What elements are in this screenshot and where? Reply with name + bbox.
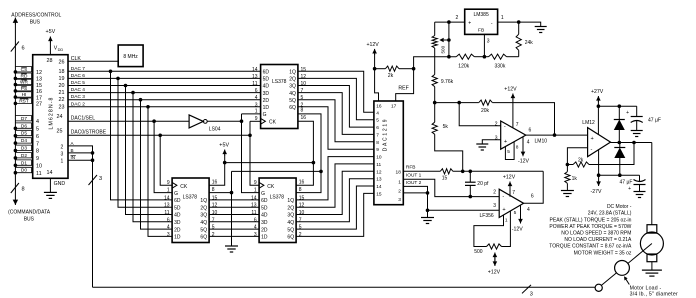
DAC0/STROBE line pin 25 [68,134,250,136]
svg-text:7: 7 [376,132,379,138]
svg-text:+: + [504,139,507,145]
svg-text:DAC 6: DAC 6 [71,73,85,79]
svg-text:12: 12 [212,203,218,209]
svg-text:15: 15 [376,191,382,197]
svg-text:13: 13 [164,203,170,209]
svg-text:POWER AT PEAK TORQUE = 570W: POWER AT PEAK TORQUE = 570W [549,224,631,230]
svg-text:LM10: LM10 [535,138,548,144]
resistor 2k REF [373,67,377,71]
IOUT1 wire [403,179,499,196]
svg-text:RST: RST [19,98,29,104]
svg-text:DAC1219: DAC1219 [383,118,389,152]
svg-text:20: 20 [59,83,65,89]
svg-text:10: 10 [301,81,307,87]
LM12 -27V supply [598,150,600,179]
svg-text:18: 18 [59,69,65,75]
svg-text:7: 7 [212,217,215,223]
svg-text:2D: 2D [263,98,270,104]
svg-text:13: 13 [252,74,258,80]
svg-text:18: 18 [396,169,402,175]
svg-text:NO LOAD SPEED = 3870 RPM: NO LOAD SPEED = 3870 RPM [561,231,631,237]
svg-text:24V, 23.8A (STALL): 24V, 23.8A (STALL) [588,211,632,217]
encoder bus bottom run [93,286,596,288]
resistor 9.76k [434,57,436,75]
svg-text:+5V: +5V [219,143,229,149]
svg-text:47 µF: 47 µF [620,179,633,185]
svg-text:DAC 3: DAC 3 [71,94,85,100]
svg-text:27: 27 [36,102,42,108]
svg-text:6: 6 [254,217,257,223]
encoder bus slash 3 [89,175,98,185]
svg-text:14: 14 [251,195,257,201]
op-amp U6 LM10 [501,121,526,149]
svg-text:11: 11 [36,171,42,177]
svg-text:1D: 1D [174,235,181,241]
DAC5 line from LM628 pin 20 with tap to lower latch [68,85,261,87]
DAC1/SEL line pin 24 [68,120,189,122]
svg-text:10: 10 [299,210,305,216]
motor supply wire [651,143,653,225]
svg-text:LS378: LS378 [183,194,198,200]
svg-text:3D: 3D [263,91,270,97]
svg-text:2: 2 [456,15,459,21]
svg-text:5Q: 5Q [287,227,294,233]
svg-text:2k: 2k [388,73,394,79]
svg-text:5k: 5k [443,124,449,130]
top latch pin 16 +5V wire [296,121,313,185]
svg-text:DAC 2: DAC 2 [71,101,85,107]
encoder disc [615,261,630,276]
svg-text:3: 3 [255,102,258,108]
svg-text:22: 22 [59,97,65,103]
svg-text:(COMMAND/DATA: (COMMAND/DATA [8,210,51,216]
svg-text:HI: HI [22,92,27,98]
svg-text:5D: 5D [263,77,270,83]
svg-text:G: G [263,112,267,118]
LM10 -12V supply [522,137,524,150]
svg-text:25: 25 [57,128,63,134]
op-amp U7 LM12 [588,128,611,157]
svg-text:5: 5 [507,149,510,155]
svg-text:G: G [261,191,265,197]
svg-text:10: 10 [376,155,382,161]
svg-text:5Q: 5Q [200,227,207,233]
svg-text:FB: FB [478,28,484,34]
bus width slash 6 [11,42,19,52]
svg-text:23: 23 [59,104,65,110]
resistor 20k feedback [435,102,460,104]
svg-text:8: 8 [301,107,304,113]
LM10 balance pins 5 8 [505,142,514,160]
svg-text:+: + [468,21,471,27]
svg-text:PS: PS [21,86,27,92]
LM385 pin 3 FB wire [483,34,485,56]
svg-text:-: - [504,124,506,130]
svg-text:-: - [591,147,593,153]
svg-text:14: 14 [252,67,258,73]
svg-text:D2: D2 [21,153,27,159]
svg-text:3: 3 [99,176,102,182]
svg-text:24: 24 [57,114,63,120]
svg-text:Motor Load -: Motor Load - [630,285,662,291]
svg-text:-12V: -12V [512,227,523,233]
LM628 U1 body [33,55,68,179]
svg-text:DAC 7: DAC 7 [71,66,85,72]
lower latch LS378 U3 body and pins [172,178,209,243]
svg-text:6: 6 [255,88,258,94]
svg-text:2Q: 2Q [287,205,294,211]
LM10 output wire [526,134,588,136]
svg-text:4: 4 [254,225,257,231]
svg-text:LS04: LS04 [209,126,221,132]
svg-text:NO LOAD CURRENT = 0.21A: NO LOAD CURRENT = 0.21A [564,237,632,243]
svg-text:16: 16 [376,103,382,109]
LM10 inverting input wire [459,103,501,126]
resistor 1k [565,172,570,184]
svg-text:12: 12 [36,70,42,76]
reference row 120k/330k [435,56,457,58]
svg-text:LM385: LM385 [473,12,489,18]
svg-text:9: 9 [376,147,379,153]
DAC3 line from LM628 pin 22 with tap to lower latch [68,99,261,101]
svg-text:15: 15 [442,176,448,182]
svg-text:D0: D0 [21,168,27,174]
svg-text:CK: CK [267,184,275,190]
resistor 2k feedback [573,162,589,167]
RFB wire and 15 ohm resistor [403,170,440,172]
svg-text:16: 16 [299,180,305,186]
svg-text:1Q: 1Q [287,198,294,204]
svg-text:14: 14 [164,195,170,201]
svg-text:1: 1 [505,218,508,224]
svg-text:+12V: +12V [503,174,516,180]
svg-text:7: 7 [516,122,519,128]
DAC pin 17 REF wire [396,69,414,101]
svg-text:4D: 4D [263,84,270,90]
svg-text:8 MHz: 8 MHz [123,54,138,60]
svg-text:6Q: 6Q [200,235,207,241]
svg-text:5: 5 [212,225,215,231]
svg-text:D5: D5 [21,131,27,137]
wire top latch 5Q to DAC1219 pin 8 [298,100,374,142]
svg-text:4: 4 [167,225,170,231]
encoder feedback A B IN pins [68,146,93,287]
svg-text:DD: DD [58,47,64,52]
svg-text:DAC 5: DAC 5 [71,80,85,86]
svg-text:16: 16 [301,115,307,121]
top latch pin 8 ground wire [296,114,321,193]
svg-text:6: 6 [167,217,170,223]
svg-text:5: 5 [36,127,39,133]
svg-text:4Q: 4Q [287,220,294,226]
svg-text:4: 4 [255,95,258,101]
svg-text:-: - [502,194,504,200]
svg-text:+12V: +12V [367,42,380,48]
svg-text:4Q: 4Q [200,220,207,226]
top latch LS378 U2 body and pins [261,65,298,129]
svg-text:13: 13 [376,177,382,183]
svg-text:2Q: 2Q [289,77,296,83]
svg-text:9.76k: 9.76k [441,79,454,85]
svg-text:15: 15 [212,195,218,201]
svg-text:120k: 120k [458,64,469,70]
svg-text:6D: 6D [261,198,268,204]
svg-text:CK: CK [269,120,277,126]
svg-text:RFB: RFB [406,165,416,171]
svg-text:17: 17 [36,95,42,101]
svg-text:DAC1/SEL: DAC1/SEL [71,115,95,121]
svg-text:12: 12 [299,203,305,209]
svg-text:RD: RD [21,73,28,79]
svg-text:6: 6 [529,128,532,134]
svg-text:7: 7 [299,217,302,223]
svg-text:2: 2 [493,189,496,195]
DAC6 line from LM628 pin 19 with tap to lower latch [68,77,261,79]
svg-text:G: G [174,191,178,197]
svg-text:REF: REF [398,85,408,91]
svg-text:1: 1 [255,109,258,115]
svg-text:3Q: 3Q [289,84,296,90]
LM628 ground pin 14 [49,178,51,192]
svg-text:+27V: +27V [591,89,604,95]
svg-text:2: 2 [61,144,64,150]
svg-text:3: 3 [495,136,498,142]
wire lower latch 5Q to DAC1219 pin 14 [296,186,374,229]
svg-text:BUS: BUS [30,19,41,25]
svg-text:4D: 4D [174,213,181,219]
svg-text:5D: 5D [261,205,268,211]
wire lower latch 1Q to DAC1219 pin 10 [296,157,374,200]
8 MHz oscillator [118,45,143,67]
wire top latch 4Q to DAC1219 pin 7 [298,93,374,135]
wire lower latch 2Q to DAC1219 pin 11 [296,164,374,207]
svg-text:19: 19 [59,76,65,82]
svg-text:ADDRESS/CONTROL: ADDRESS/CONTROL [11,12,61,18]
svg-text:4D: 4D [261,213,268,219]
potentiometer 500 offset [434,22,436,35]
svg-text:2: 2 [299,232,302,238]
CLK wire [68,60,118,62]
svg-text:9: 9 [255,116,258,122]
svg-text:LM12: LM12 [582,120,595,126]
svg-text:21: 21 [59,90,65,96]
inverter LS04 [189,115,203,128]
svg-text:2k: 2k [578,158,584,164]
svg-text:6Q: 6Q [287,235,294,241]
LF356 output feedback loop [524,171,544,203]
svg-text:3D: 3D [261,220,268,226]
svg-text:6: 6 [36,134,39,140]
svg-text:13: 13 [251,203,257,209]
svg-text:5Q: 5Q [289,98,296,104]
svg-text:20 pf: 20 pf [477,181,489,187]
svg-text:D7: D7 [21,116,27,122]
DAC pin 16 wire [375,69,379,101]
svg-text:1: 1 [501,15,504,21]
svg-text:2D: 2D [261,227,268,233]
svg-text:7: 7 [512,190,515,196]
svg-text:15: 15 [301,67,307,73]
DAC pin 3 ground wire [403,192,427,194]
svg-text:CK: CK [180,184,188,190]
svg-text:2: 2 [398,189,401,195]
svg-text:14: 14 [376,184,382,190]
svg-text:26: 26 [59,60,65,66]
resistor 5k [432,122,437,134]
svg-text:47 µF: 47 µF [648,118,661,124]
svg-text:D4: D4 [21,138,27,144]
LM385 pin 1 wire to ground [498,22,541,26]
svg-text:24k: 24k [525,40,534,46]
svg-text:5: 5 [514,210,517,216]
bus connector circle [595,284,602,291]
svg-text:6: 6 [531,194,534,200]
svg-text:8: 8 [36,149,39,155]
svg-text:B: B [71,148,74,153]
svg-text:16: 16 [36,89,42,95]
svg-text:IOUT 2: IOUT 2 [406,180,422,186]
bottom bus slash 3 [522,285,531,294]
svg-text:14: 14 [47,170,53,176]
LS04 output net to latch enables [207,120,241,122]
svg-text:8: 8 [516,144,519,150]
control signal tags CS RD WR PS HI RST [14,70,18,74]
svg-text:9: 9 [36,156,39,162]
svg-text:PEAK (STALL) TORQUE = 205 oz-i: PEAK (STALL) TORQUE = 205 oz-in [550,217,632,223]
svg-text:500: 500 [474,249,483,255]
svg-text:9: 9 [254,180,257,186]
svg-text:D3: D3 [21,146,27,152]
REF row to LM385 network [414,57,435,69]
svg-text:3: 3 [493,203,496,209]
svg-text:4Q: 4Q [289,91,296,97]
svg-text:8: 8 [22,187,25,193]
svg-text:3Q: 3Q [287,213,294,219]
svg-text:12: 12 [376,169,382,175]
motor load callout arrow [625,277,630,284]
LM385 D1 body [465,9,498,34]
svg-text:LF356: LF356 [480,213,494,219]
svg-text:4: 4 [527,207,530,213]
-27V rail [599,174,640,176]
capacitor 47uF positive rail [636,106,638,116]
+27V rail [598,105,636,107]
svg-text:WR: WR [20,80,29,86]
DC motor M1 [647,225,657,233]
svg-text:9: 9 [167,180,170,186]
svg-text:11: 11 [251,210,256,216]
svg-text:3: 3 [61,151,64,157]
svg-text:1Q: 1Q [289,70,296,76]
svg-text:10: 10 [36,164,42,170]
svg-text:3: 3 [167,232,170,238]
svg-text:DAC 4: DAC 4 [71,87,85,93]
svg-text:+: + [591,136,594,142]
svg-text:8: 8 [299,187,302,193]
svg-text:6D: 6D [174,198,181,204]
svg-text:+: + [502,207,505,213]
svg-text:GND: GND [54,181,66,187]
svg-text:+: + [628,186,631,192]
LF356 offset pot 500 [474,215,504,247]
DAC U5 DAC1219 body and pins [374,101,403,205]
svg-text:+12V: +12V [504,87,517,93]
svg-text:+5V: +5V [46,29,56,35]
LM12 inverting wire [567,148,587,165]
svg-text:3: 3 [530,291,533,297]
svg-text:17: 17 [391,103,397,109]
svg-text:1: 1 [254,187,257,193]
svg-text:BUS: BUS [24,217,35,223]
motor ground [651,262,653,270]
svg-text:5D: 5D [174,205,181,211]
svg-text:8: 8 [376,140,379,146]
svg-text:1: 1 [167,187,170,193]
svg-text:+12V: +12V [488,269,501,275]
svg-text:3: 3 [398,197,401,203]
svg-text:11: 11 [164,210,169,216]
svg-text:DAC0/STROBE: DAC0/STROBE [71,130,107,136]
svg-text:MOTOR WEIGHT = 35 oz: MOTOR WEIGHT = 35 oz [574,250,632,256]
capacitor 20pF [469,171,471,182]
svg-text:2Q: 2Q [200,205,207,211]
bus line (address/control + command/data) [14,23,16,198]
svg-text:CS: CS [21,67,28,73]
svg-text:3D: 3D [174,220,181,226]
svg-text:-27V: -27V [591,189,602,195]
svg-text:1D: 1D [263,105,270,111]
LM12 output row [611,142,652,144]
wire top latch 6Q to DAC1219 pin 9 [298,107,374,149]
svg-text:4: 4 [36,119,39,125]
svg-text:5: 5 [376,118,379,124]
svg-text:3: 3 [254,232,257,238]
svg-text:10: 10 [212,210,218,216]
motor shaft to encoder [601,244,652,286]
svg-text:12: 12 [301,74,307,80]
wire top latch 3Q to DAC1219 pin 6 [298,86,374,128]
capacitor 47uF negative rail [639,175,641,181]
wire top latch 1Q to DAC1219 pin 4 [298,71,374,112]
svg-text:11: 11 [376,162,381,168]
clamp diode D2 [618,106,620,119]
svg-text:D1: D1 [21,160,27,166]
svg-text:TORQUE CONSTANT = 8.67 oz-in/A: TORQUE CONSTANT = 8.67 oz-in/A [549,244,632,250]
lower latch LS378 U4 body and pins [259,178,296,243]
svg-text:4: 4 [527,139,530,145]
wire top latch 2Q to DAC1219 pin 5 [298,78,374,119]
svg-text:2: 2 [495,121,498,127]
svg-text:IOUT 1: IOUT 1 [406,173,422,179]
svg-text:500: 500 [441,45,446,53]
svg-text:6: 6 [376,125,379,131]
svg-text:330k: 330k [495,64,506,70]
op-amp U8 LF356 [499,189,523,217]
svg-text:28: 28 [47,58,53,64]
svg-text:6Q: 6Q [289,105,296,111]
LM10 non-inverting ground [482,140,500,144]
svg-text:16: 16 [212,180,218,186]
svg-text:5: 5 [299,225,302,231]
svg-text:5: 5 [301,95,304,101]
svg-text:1D: 1D [261,235,268,241]
clamp diode D3 [619,143,621,148]
wire lower latch 3Q to DAC1219 pin 12 [296,171,374,214]
svg-text:1Q: 1Q [200,198,207,204]
svg-text:13: 13 [36,77,42,83]
svg-text:7: 7 [36,141,39,147]
DAC2 line from LM628 pin 23 with tap to lower latch [68,106,261,108]
